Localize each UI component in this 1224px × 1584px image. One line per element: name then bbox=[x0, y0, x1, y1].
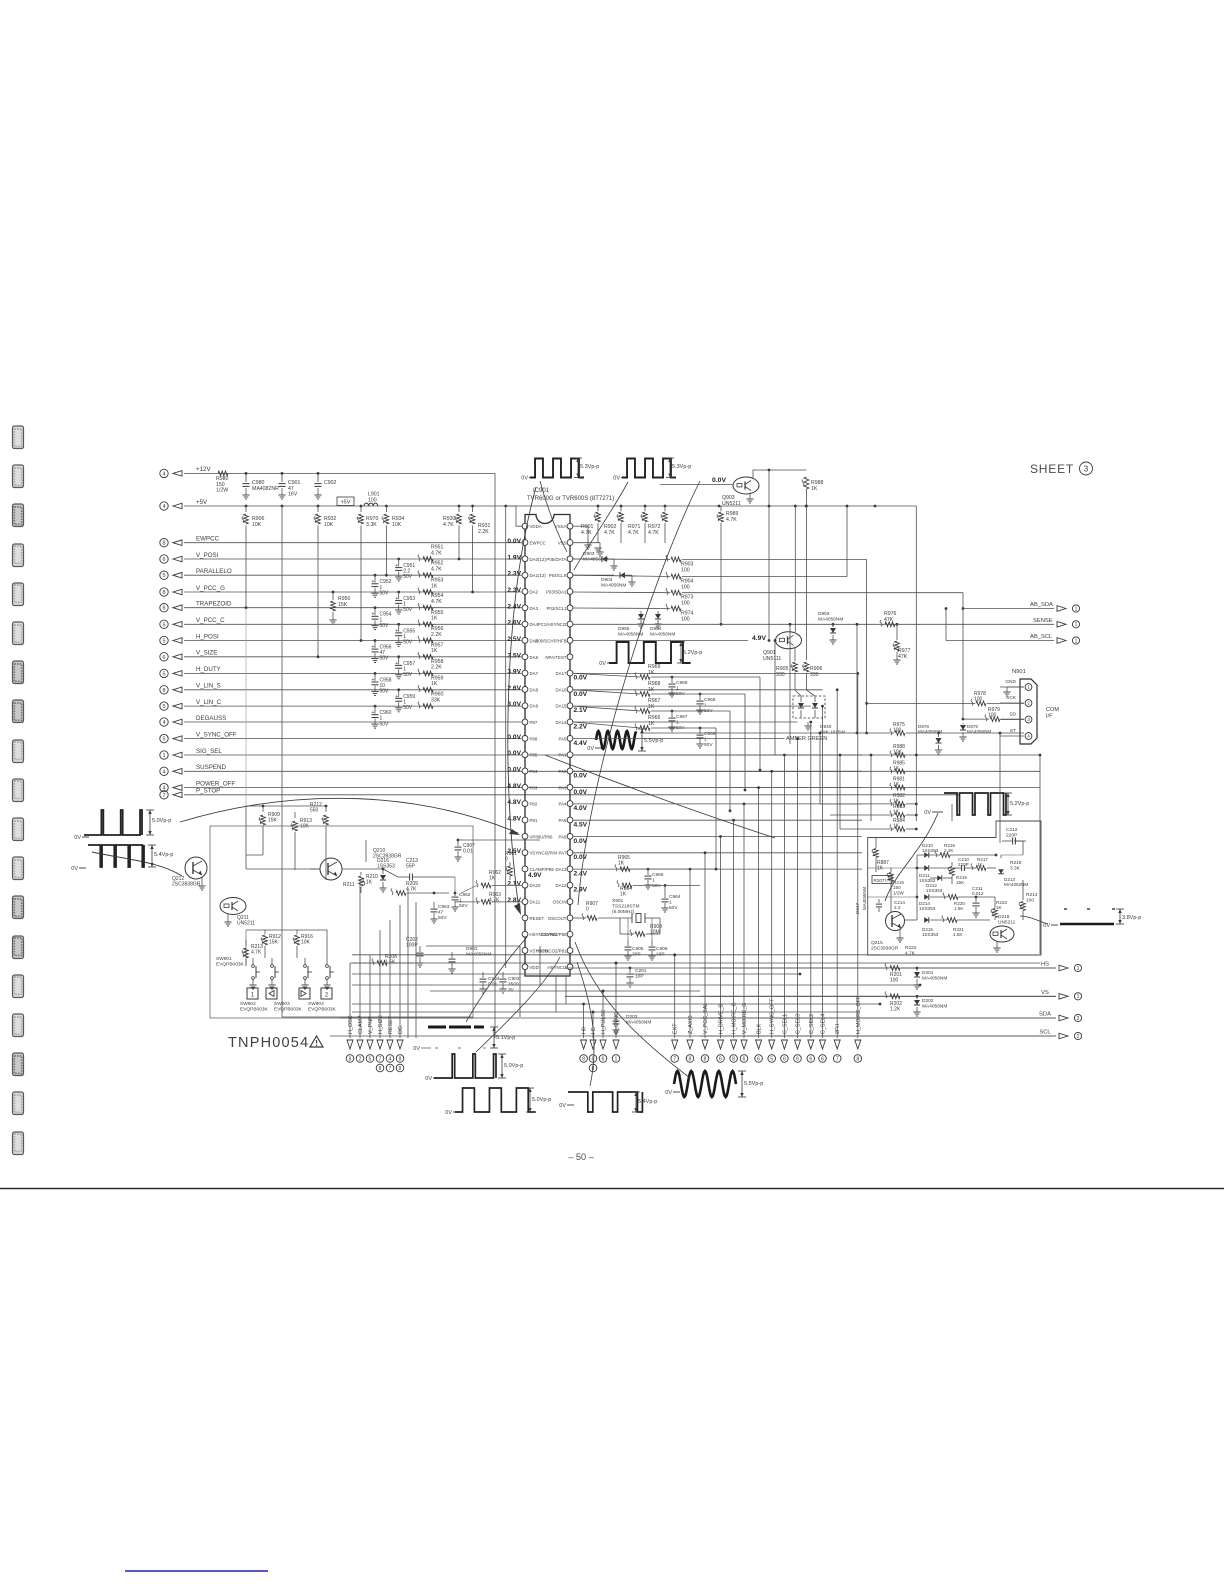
svg-text:MA4056NM: MA4056NM bbox=[626, 1019, 651, 1025]
svg-text:HS: HS bbox=[1041, 962, 1049, 968]
svg-text:1: 1 bbox=[676, 685, 679, 691]
svg-text:0.01: 0.01 bbox=[463, 849, 473, 855]
svg-text:0.0V: 0.0V bbox=[507, 750, 521, 757]
svg-text:50V: 50V bbox=[403, 574, 413, 580]
svg-text:PA5: PA5 bbox=[559, 818, 568, 823]
svg-text:POWER_OFF: POWER_OFF bbox=[196, 780, 235, 787]
svg-text:EVQPB003K: EVQPB003K bbox=[240, 1006, 269, 1012]
svg-text:P83: P83 bbox=[530, 785, 538, 790]
svg-text:MA4056NM: MA4056NM bbox=[650, 631, 675, 637]
svg-text:VS: VS bbox=[1041, 990, 1049, 996]
capacitor C905 20P bbox=[627, 940, 629, 946]
input row DEGAUSS bbox=[160, 718, 168, 726]
svg-text:P_STOP: P_STOP bbox=[196, 788, 220, 795]
svg-text:4: 4 bbox=[1027, 734, 1030, 739]
svg-text:R207: R207 bbox=[874, 878, 885, 883]
svg-text:100: 100 bbox=[681, 567, 690, 573]
IC pin 5 left DA2 bbox=[522, 589, 528, 595]
resistor R959 1K bbox=[423, 687, 433, 692]
svg-text:8: 8 bbox=[856, 1056, 859, 1062]
leader arc W2 to pin4 bbox=[574, 482, 628, 570]
wire ST row bbox=[640, 732, 894, 734]
+5V bus junction dots bbox=[245, 505, 248, 508]
svg-text:6: 6 bbox=[162, 557, 165, 563]
svg-text:DG: DG bbox=[398, 1026, 404, 1034]
svg-text:+: + bbox=[372, 710, 375, 716]
svg-text:1K: 1K bbox=[648, 704, 655, 710]
svg-text:1K: 1K bbox=[893, 810, 900, 816]
svg-text:P81: P81 bbox=[530, 818, 538, 823]
stack wires bbox=[893, 754, 906, 756]
svg-text:1: 1 bbox=[704, 702, 707, 708]
IC pin 15 right PA1 bbox=[567, 752, 573, 758]
svg-text:5.2Vp-p: 5.2Vp-p bbox=[683, 650, 702, 656]
S-curve leader into block bbox=[885, 813, 938, 901]
svg-text:0V: 0V bbox=[587, 746, 594, 752]
switch contact 3 bbox=[304, 965, 307, 968]
svg-text:H0: H0 bbox=[582, 1027, 588, 1034]
inductor L901 bbox=[364, 503, 378, 506]
IC pin 19 right PA5 bbox=[567, 817, 573, 823]
resistor R983 1K bbox=[895, 813, 905, 818]
IC pin 13 right DA14 bbox=[567, 719, 573, 725]
svg-text:4.9V: 4.9V bbox=[752, 635, 766, 642]
resistor R905 330 bbox=[794, 648, 796, 661]
svg-text:33K: 33K bbox=[431, 697, 441, 703]
svg-text:EVQPB003K: EVQPB003K bbox=[216, 961, 245, 967]
bottom page rule bbox=[0, 1188, 1224, 1190]
resistor R954 4.7K bbox=[423, 605, 433, 610]
svg-text:V_SYNC_OFF: V_SYNC_OFF bbox=[196, 731, 237, 738]
IC pin 25 left RESET bbox=[522, 915, 528, 921]
IC pin 21 left VSYNCI2/P84 bbox=[522, 850, 528, 856]
svg-text:BLK: BLK bbox=[757, 1023, 763, 1034]
svg-text:+12V: +12V bbox=[196, 466, 211, 473]
switch contact 1 bbox=[252, 965, 255, 968]
IC pin 20 left VP80U/P86 bbox=[522, 833, 528, 839]
resistor R981 1K bbox=[895, 785, 905, 790]
riser x946 AB_SCL bbox=[945, 609, 947, 641]
svg-text:DA14: DA14 bbox=[556, 720, 568, 725]
IC pin 4 left DA1(12) bbox=[522, 572, 528, 578]
IC pin 10 left DA7 bbox=[522, 670, 528, 676]
resistor R955 1K bbox=[423, 622, 433, 627]
resistor R960 33K bbox=[423, 704, 433, 709]
svg-text:6: 6 bbox=[719, 1056, 722, 1062]
svg-text:4.8V: 4.8V bbox=[507, 783, 521, 790]
capacitor C965 1 50V bbox=[647, 868, 650, 871]
svg-text:2.2K: 2.2K bbox=[431, 632, 442, 638]
svg-text:OSCOUT: OSCOUT bbox=[548, 916, 567, 921]
svg-text:1K: 1K bbox=[811, 486, 818, 492]
svg-text:15K: 15K bbox=[956, 880, 965, 885]
input row V_SYNC_OFF bbox=[160, 734, 168, 742]
svg-text:0V: 0V bbox=[924, 810, 931, 816]
resistor R901 4.7K bbox=[597, 506, 599, 511]
svg-text:1: 1 bbox=[615, 1056, 618, 1062]
svg-text:4.7K: 4.7K bbox=[905, 950, 916, 956]
leader arc mid to right block bbox=[545, 755, 775, 838]
svg-text:C903: C903 bbox=[508, 976, 520, 982]
keypad block outline bbox=[210, 826, 473, 1018]
IC U901 TVR600G body bbox=[525, 515, 570, 977]
svg-text:1K: 1K bbox=[431, 648, 438, 654]
block internal wires bbox=[917, 854, 940, 856]
svg-text:6: 6 bbox=[821, 1056, 824, 1062]
svg-text:6: 6 bbox=[162, 606, 165, 612]
svg-text:MA4055NM: MA4055NM bbox=[862, 886, 867, 910]
svg-text:H_SYNC_OFF: H_SYNC_OFF bbox=[770, 998, 776, 1034]
connector pin 1 GND bbox=[1025, 684, 1032, 691]
svg-text:1: 1 bbox=[1077, 966, 1080, 972]
svg-text:DA16: DA16 bbox=[556, 687, 568, 692]
resistor R973 100 bbox=[671, 590, 681, 595]
svg-text:D901: D901 bbox=[466, 946, 478, 952]
input row SIG_SEL bbox=[160, 751, 168, 759]
svg-text:AB_SCL: AB_SCL bbox=[1030, 634, 1053, 640]
resistor R971 4.7K bbox=[644, 506, 646, 511]
svg-text:0V: 0V bbox=[599, 661, 606, 667]
svg-text:8: 8 bbox=[162, 688, 165, 694]
svg-text:8: 8 bbox=[379, 1066, 382, 1072]
svg-text:2: 2 bbox=[1077, 1034, 1080, 1040]
leader arc W1 left down to RESET bbox=[508, 487, 536, 910]
svg-text:AB_SDA: AB_SDA bbox=[1030, 602, 1053, 608]
capacitor C963 47 50V bbox=[433, 902, 435, 908]
IC pin 21 right PA7 bbox=[567, 850, 573, 856]
svg-text:D203: D203 bbox=[626, 1014, 638, 1020]
transistor Q212 2SC3938GR bbox=[185, 857, 207, 879]
pin1 VSSA ground stub bbox=[573, 525, 588, 527]
fanout junction dots bbox=[673, 953, 676, 956]
svg-text:HSYNCO2/P81: HSYNCO2/P81 bbox=[536, 949, 567, 954]
svg-text:16V: 16V bbox=[288, 492, 298, 498]
IC pin 14 right PA0 bbox=[567, 736, 573, 742]
svg-text:4.8V: 4.8V bbox=[507, 815, 521, 822]
svg-text:3V: 3V bbox=[508, 987, 515, 993]
capacitor C901 bbox=[281, 473, 283, 482]
svg-text:4.0V: 4.0V bbox=[574, 805, 588, 812]
svg-text:8: 8 bbox=[349, 1056, 352, 1062]
svg-text:P84: P84 bbox=[530, 769, 538, 774]
svg-text:+: + bbox=[395, 628, 398, 634]
switch contact 2 bbox=[271, 965, 274, 968]
svg-text:4.5V: 4.5V bbox=[574, 821, 588, 828]
svg-text:DA0(12): DA0(12) bbox=[530, 557, 547, 562]
extra verticals below IC bbox=[519, 946, 521, 1017]
transistor Q901 UN5111 bbox=[776, 632, 802, 649]
svg-text:50V: 50V bbox=[438, 915, 447, 921]
svg-text:HSYNCI3: HSYNCI3 bbox=[547, 965, 567, 970]
output row HS bbox=[700, 967, 1056, 969]
capacitor C955 1 50V bbox=[397, 623, 400, 626]
svg-text:TNPH0054: TNPH0054 bbox=[228, 1035, 309, 1051]
svg-text:C966: C966 bbox=[704, 731, 716, 737]
IC pin 17 right PA3 bbox=[567, 784, 573, 790]
IC pin 15 left P85 bbox=[522, 752, 528, 758]
svg-text:50V: 50V bbox=[380, 656, 390, 662]
svg-text:SIG_SEL: SIG_SEL bbox=[196, 748, 222, 755]
svg-text:P03/SDA1: P03/SDA1 bbox=[546, 589, 567, 594]
svg-text:C_SYNC: C_SYNC bbox=[614, 1012, 620, 1034]
svg-text:DA1(12): DA1(12) bbox=[530, 573, 547, 578]
svg-text:7: 7 bbox=[836, 1056, 839, 1062]
output row AB_SDA bbox=[963, 608, 1054, 610]
svg-text:0V: 0V bbox=[521, 476, 528, 482]
svg-text:50V: 50V bbox=[380, 590, 390, 596]
svg-text:4.7K: 4.7K bbox=[431, 567, 442, 573]
svg-text:C_SEL1: C_SEL1 bbox=[782, 1014, 788, 1034]
svg-text:4: 4 bbox=[162, 471, 165, 477]
svg-text:DA13: DA13 bbox=[556, 867, 568, 872]
input row V_POSI bbox=[160, 555, 168, 563]
svg-text:5.3Vp-p: 5.3Vp-p bbox=[580, 464, 599, 470]
IC pin 11 left DA8 bbox=[522, 687, 528, 693]
svg-text:0.0V: 0.0V bbox=[507, 767, 521, 774]
svg-text:100: 100 bbox=[681, 601, 690, 607]
misc long vertical wires bbox=[715, 728, 717, 869]
resistor R980 bbox=[218, 471, 228, 476]
svg-text:100: 100 bbox=[1026, 897, 1034, 903]
svg-text:1: 1 bbox=[676, 719, 679, 725]
svg-text:5.4Vp-p: 5.4Vp-p bbox=[154, 852, 173, 858]
svg-text:50V: 50V bbox=[704, 742, 713, 748]
resistor R952 4.7K bbox=[423, 573, 433, 578]
svg-text:5: 5 bbox=[770, 1056, 773, 1062]
svg-text:4: 4 bbox=[162, 504, 165, 510]
svg-text:D953: D953 bbox=[818, 611, 830, 617]
svg-text:D940: D940 bbox=[820, 724, 832, 730]
svg-text:6: 6 bbox=[809, 1056, 812, 1062]
svg-text:4.7K: 4.7K bbox=[604, 530, 615, 536]
svg-text:0: 0 bbox=[586, 907, 589, 913]
svg-text:2SC3938GR: 2SC3938GR bbox=[172, 882, 201, 888]
svg-text:TSS218STM: TSS218STM bbox=[612, 903, 639, 909]
svg-text:H_DRIVE_B: H_DRIVE_B bbox=[719, 1004, 725, 1034]
svg-text:SUSPEND: SUSPEND bbox=[196, 764, 226, 771]
resistor R906b 330 bbox=[804, 662, 809, 672]
svg-text:5: 5 bbox=[162, 671, 165, 677]
svg-text:1: 1 bbox=[1027, 685, 1030, 690]
resistor R902 4.7K bbox=[620, 506, 622, 511]
svg-text:AMBER GREEN: AMBER GREEN bbox=[786, 736, 827, 742]
IC pin 16 right PA2 bbox=[567, 768, 573, 774]
svg-text:4.7K: 4.7K bbox=[581, 530, 592, 536]
svg-text:3.0V: 3.0V bbox=[507, 701, 521, 708]
wire SCK row bbox=[867, 702, 975, 704]
svg-text:100: 100 bbox=[890, 978, 899, 984]
svg-text:0V: 0V bbox=[613, 476, 620, 482]
svg-text:10K: 10K bbox=[324, 522, 334, 528]
svg-text:EWPCC: EWPCC bbox=[530, 541, 546, 546]
svg-text:100: 100 bbox=[988, 713, 997, 719]
svg-text:4: 4 bbox=[162, 769, 165, 775]
resistor R934 10K bbox=[385, 506, 387, 512]
+5V box label bbox=[337, 497, 354, 506]
keypad wires bbox=[246, 929, 297, 931]
svg-text:3: 3 bbox=[1084, 464, 1089, 473]
capacitor C960 1 50V bbox=[374, 705, 377, 708]
svg-text:50V: 50V bbox=[403, 640, 413, 646]
svg-text:3.3K: 3.3K bbox=[1010, 865, 1021, 871]
svg-text:MA4056NM: MA4056NM bbox=[601, 582, 626, 588]
svg-text:0.0V: 0.0V bbox=[574, 789, 588, 796]
svg-text:DA17: DA17 bbox=[556, 671, 568, 676]
IC pin 6 right P02/SCL1 bbox=[567, 605, 573, 611]
svg-text:PA7: PA7 bbox=[559, 851, 568, 856]
svg-text:10K: 10K bbox=[252, 522, 262, 528]
svg-text:0.0V: 0.0V bbox=[574, 854, 588, 861]
sub-circuit wires bbox=[310, 868, 320, 870]
IC pin 9 right NPA/TEST bbox=[567, 654, 573, 660]
svg-text:C962: C962 bbox=[459, 892, 471, 898]
wire +12V junctions bbox=[245, 472, 248, 475]
svg-text:DA7: DA7 bbox=[530, 671, 539, 676]
ground R901 bbox=[594, 547, 601, 549]
svg-text:3: 3 bbox=[1027, 717, 1030, 722]
svg-text:1K: 1K bbox=[366, 880, 373, 886]
svg-text:2.2V: 2.2V bbox=[574, 724, 588, 731]
junction dots misc bbox=[789, 623, 792, 626]
long vertical wire x282 bbox=[281, 506, 283, 1017]
diode D879 MA4056NM bbox=[960, 725, 966, 730]
+5V bus line to right area bbox=[597, 505, 600, 508]
svg-text:1: 1 bbox=[162, 753, 165, 759]
svg-text:1: 1 bbox=[1075, 638, 1078, 644]
resistor R979 100 bbox=[990, 717, 1000, 722]
svg-text:1K: 1K bbox=[996, 905, 1003, 910]
IC pin 24 left DA11 bbox=[522, 899, 528, 905]
svg-text:SD: SD bbox=[1009, 712, 1016, 718]
svg-text:4: 4 bbox=[389, 1056, 392, 1062]
Q903 wires bbox=[660, 484, 733, 486]
svg-text:V_POSI: V_POSI bbox=[196, 552, 219, 559]
input row H_DUTY bbox=[160, 669, 168, 677]
svg-text:4: 4 bbox=[162, 720, 165, 726]
svg-text:C964: C964 bbox=[669, 894, 681, 900]
svg-text:1: 1 bbox=[1075, 622, 1078, 628]
diode D903 MA4056NM bbox=[602, 556, 607, 562]
svg-text:MA4056NM: MA4056NM bbox=[818, 616, 843, 622]
IC pin 8 left DA5 bbox=[522, 638, 528, 644]
resistor R966 1K bbox=[640, 726, 650, 731]
svg-text:2.6V: 2.6V bbox=[507, 685, 521, 692]
svg-text:D217: D217 bbox=[855, 903, 860, 914]
resistor R916 10K bbox=[296, 930, 298, 934]
IC pin 28 left VDD bbox=[522, 964, 528, 970]
svg-text:+: + bbox=[395, 596, 398, 602]
capacitor C907 0.01 bbox=[457, 839, 460, 842]
resistor R210 1K bbox=[360, 872, 362, 875]
IC pin 18 right PA4 bbox=[567, 801, 573, 807]
svg-text:1SS353: 1SS353 bbox=[922, 932, 939, 937]
svg-text:8: 8 bbox=[162, 541, 165, 547]
svg-text:DEGAUSS: DEGAUSS bbox=[196, 715, 226, 722]
svg-text:OSCIN: OSCIN bbox=[553, 900, 567, 905]
svg-text:V_PCC_BAL: V_PCC_BAL bbox=[703, 1003, 709, 1034]
resistor R904 100 bbox=[671, 574, 681, 579]
resistor R912 15K bbox=[264, 930, 266, 934]
svg-text:1K: 1K bbox=[618, 861, 625, 867]
svg-text:V_PNP: V_PNP bbox=[368, 1016, 374, 1034]
svg-text:N901: N901 bbox=[1012, 669, 1026, 675]
IC pin 10 right DA17 bbox=[567, 670, 573, 676]
svg-text:DA6: DA6 bbox=[530, 655, 539, 660]
svg-text:0V: 0V bbox=[665, 1090, 672, 1096]
IC pin 1 right VSSA bbox=[567, 523, 573, 529]
bottom label verticals group EXT..H_MOIRE_OFF bbox=[674, 955, 676, 1038]
svg-text:+: + bbox=[395, 563, 398, 569]
input row V_LIN_C bbox=[160, 702, 168, 710]
svg-text:CSYNCI/P80: CSYNCI/P80 bbox=[541, 932, 567, 937]
IC bottom fanout wires bbox=[352, 954, 880, 956]
svg-text:PA0: PA0 bbox=[559, 736, 568, 741]
svg-text:6: 6 bbox=[783, 1056, 786, 1062]
capacitor C966 1 50V bbox=[699, 727, 702, 730]
svg-text:D955: D955 bbox=[618, 626, 630, 632]
svg-text:UN5211: UN5211 bbox=[237, 921, 255, 927]
resistor R213 4.7K bbox=[245, 940, 247, 946]
svg-text:50V: 50V bbox=[403, 705, 413, 711]
IC pin 1 left VDDA bbox=[522, 523, 528, 529]
warning triangle bbox=[310, 1036, 323, 1047]
svg-text:R218: R218 bbox=[1010, 860, 1022, 866]
svg-text:VSSA: VSSA bbox=[555, 524, 567, 529]
big leader arc to pin20 bbox=[180, 798, 518, 833]
binding holes left edge bbox=[13, 426, 24, 449]
svg-text:7: 7 bbox=[389, 1066, 392, 1072]
svg-text:5: 5 bbox=[369, 1056, 372, 1062]
resistor R906 10K bbox=[245, 506, 247, 512]
svg-text:+: + bbox=[395, 661, 398, 667]
input row H_POSI bbox=[160, 636, 168, 644]
right block outline bbox=[868, 821, 1041, 955]
svg-text:2.3V: 2.3V bbox=[507, 587, 521, 594]
svg-text:2.2K: 2.2K bbox=[478, 529, 489, 535]
svg-text:4.7K: 4.7K bbox=[251, 950, 262, 956]
IC pin 6 left DA3 bbox=[522, 605, 528, 611]
svg-text:5.4Vp-p: 5.4Vp-p bbox=[638, 1099, 657, 1105]
svg-text:50V: 50V bbox=[403, 607, 413, 613]
wires from pins 3-6 to series resistors bbox=[573, 558, 670, 561]
svg-text:330: 330 bbox=[776, 672, 785, 678]
waveform W7 5.2Vp-p bbox=[944, 793, 1006, 815]
capacitor C968 1 50V bbox=[699, 693, 702, 696]
input row TRAPEZOID bbox=[160, 604, 168, 612]
resistor R978 100 bbox=[976, 701, 986, 706]
svg-text:100: 100 bbox=[974, 697, 983, 703]
resistor R969 1K bbox=[640, 675, 650, 680]
svg-text:7: 7 bbox=[162, 793, 165, 799]
svg-text:0.0V: 0.0V bbox=[574, 675, 588, 682]
IC pin 18 left P82 bbox=[522, 801, 528, 807]
svg-text:D216: D216 bbox=[998, 914, 1010, 920]
input row POWER_OFF bbox=[160, 783, 168, 791]
resistor R932 10K bbox=[317, 506, 319, 512]
svg-text:TVR600G or TVR600S (8T7271): TVR600G or TVR600S (8T7271) bbox=[527, 496, 614, 502]
svg-text:5.5Vp-p: 5.5Vp-p bbox=[744, 1081, 763, 1087]
svg-text:H_MOIRE_OFF: H_MOIRE_OFF bbox=[856, 995, 862, 1034]
leader from W8 to block bbox=[1020, 916, 1048, 924]
IC pin 23 right DA12 bbox=[567, 882, 573, 888]
svg-text:PA2: PA2 bbox=[559, 769, 568, 774]
svg-text:C968: C968 bbox=[704, 697, 716, 703]
vertical wire x769 Q903 collector to Q901 base bbox=[768, 470, 770, 641]
svg-text:2.5V: 2.5V bbox=[507, 636, 521, 643]
svg-text:220P: 220P bbox=[958, 862, 969, 867]
svg-text:+5V: +5V bbox=[196, 499, 208, 506]
svg-text:6: 6 bbox=[757, 1056, 760, 1062]
